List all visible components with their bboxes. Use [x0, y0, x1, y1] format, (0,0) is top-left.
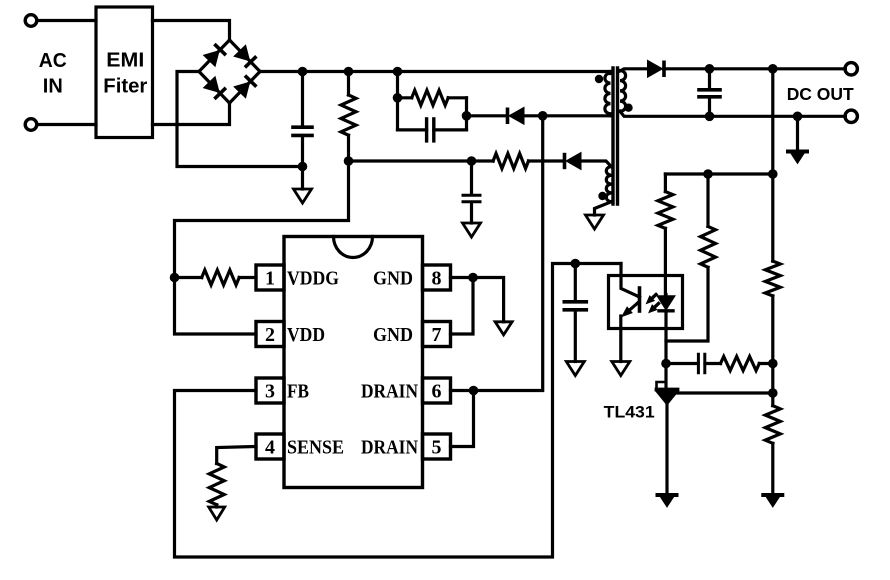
node rail-R1	[344, 67, 354, 77]
wire divider top	[771, 69, 774, 174]
node C1-lower bus	[298, 162, 308, 172]
resistor R1 startup	[341, 95, 356, 135]
wire TL431 ref	[676, 391, 773, 394]
wire comp mid lead	[705, 362, 721, 365]
node C2-DC- rail	[705, 112, 715, 122]
pin 4 box	[256, 434, 284, 459]
resistor R6 opto series	[658, 192, 673, 229]
wire FB route	[175, 264, 622, 558]
svg-text:4: 4	[265, 437, 275, 459]
wire secondary top lead	[620, 69, 648, 71]
wire divider to R8	[771, 174, 774, 261]
wire primary bottom joint	[609, 114, 612, 116]
node snubber output	[462, 111, 472, 121]
wire R7 top lead	[706, 174, 709, 226]
svg-text:3: 3	[265, 381, 275, 403]
resistor R2 to VDDG	[202, 270, 240, 285]
opto light arrow 1	[652, 295, 656, 299]
bridge diode D3 bottom-left	[204, 77, 220, 93]
bridge diamond edge top-right	[230, 40, 261, 72]
wire node A horizontal	[665, 172, 772, 175]
wire comp right lead	[759, 362, 773, 365]
node ref	[768, 388, 778, 398]
resistor R10 compensation	[721, 357, 760, 371]
wire opto collector	[621, 264, 640, 298]
pin 6 box	[423, 378, 451, 403]
wire DC- ground stub	[796, 116, 799, 151]
bridge diamond edge bottom-left	[199, 72, 230, 104]
terminal DC-	[845, 110, 857, 122]
wire snubber to clamp diode	[467, 114, 508, 117]
wire snubber bottom-right	[434, 128, 467, 131]
wire snubber feed	[396, 72, 399, 98]
wire EMI top output to bridge AC top	[153, 21, 230, 41]
node DC+ divider tap	[768, 64, 778, 74]
node VDD cap	[467, 156, 477, 166]
svg-text:5: 5	[432, 437, 442, 459]
svg-text:DRAIN: DRAIN	[361, 381, 418, 403]
ground TL431	[658, 493, 677, 497]
svg-text:IN: IN	[43, 76, 63, 98]
phase dot primary	[595, 75, 603, 83]
wire opto LED cathode down	[664, 311, 667, 364]
svg-text:DC OUT: DC OUT	[787, 84, 854, 104]
EMI filter block	[96, 7, 153, 138]
node pin8 gnd	[468, 273, 478, 283]
transformer auxiliary winding	[606, 167, 611, 202]
node drain pin6	[469, 386, 479, 396]
TL431 ref tab	[657, 382, 664, 389]
wire C1 bottom	[301, 136, 304, 167]
phase dot secondary	[624, 104, 632, 112]
TL431 U3 body	[657, 392, 678, 405]
wire snubber bottom-left	[398, 128, 427, 131]
resistor R5 sense	[209, 464, 224, 505]
terminal AC input top	[25, 15, 37, 27]
capacitor C1 bulk	[293, 125, 312, 129]
svg-text:GND: GND	[373, 324, 413, 346]
wire R3 left lead	[398, 96, 412, 99]
ground aux winding	[586, 215, 604, 229]
bridge diamond edge bottom-right	[230, 72, 261, 104]
wire R9 top	[771, 393, 774, 406]
wire secondary bottom lead	[620, 111, 845, 116]
node DC- ground tap	[793, 112, 803, 122]
wire R6 bottom lead	[664, 228, 667, 294]
wire C2 bottom	[708, 98, 711, 117]
node comp right	[768, 359, 778, 369]
bridge diode D2 top-right	[234, 45, 250, 61]
wire TL431 cathode	[664, 364, 667, 388]
wire drain vertical	[474, 116, 543, 391]
wire C2 top	[708, 69, 711, 89]
wire pin5 lead	[451, 391, 474, 447]
node rail-C1	[298, 67, 308, 77]
ground VDD cap	[463, 223, 481, 237]
wire C5 bottom	[574, 311, 577, 362]
wire primary top joint	[609, 72, 612, 74]
bridge diode D4 bottom-right	[234, 82, 250, 98]
transformer primary winding	[605, 73, 611, 114]
wire R2 right lead to pin 1	[239, 276, 256, 279]
svg-text:EMI: EMI	[106, 50, 144, 72]
ground DC output	[788, 150, 807, 154]
wire snubber right side	[465, 98, 468, 130]
ground IC pins 8-7	[495, 322, 512, 335]
resistor R3 snubber	[412, 90, 449, 105]
capacitor C4 VDD	[463, 194, 480, 197]
wire comp left lead	[666, 362, 698, 365]
terminal DC+	[845, 63, 857, 75]
wire aux top lead	[581, 161, 612, 167]
diode D6 aux rectifier	[566, 153, 581, 170]
ground divider	[763, 493, 782, 497]
pin 2 box	[256, 322, 284, 347]
pin 7 box	[423, 322, 451, 347]
wire AC top to EMI filter	[37, 19, 96, 22]
wire bridge negative to lower bus	[177, 72, 303, 167]
svg-text:8: 8	[432, 268, 442, 290]
svg-text:7: 7	[432, 324, 442, 346]
IC U1 notch	[334, 237, 373, 258]
wire C4 bottom	[470, 203, 473, 223]
wire R8 bottom	[771, 296, 774, 364]
wire TL431 anode	[665, 405, 668, 496]
diode D7 output	[648, 60, 663, 77]
wire C1 top	[301, 72, 304, 128]
svg-text:AC: AC	[39, 50, 67, 72]
wire primary bottom lead	[543, 114, 612, 117]
node primary-drain	[538, 111, 548, 121]
wire R7 bottom lead	[666, 267, 708, 341]
wire divider mid	[771, 364, 774, 394]
wire IC ground stub	[473, 278, 504, 322]
node R1-VDD bus	[344, 156, 354, 166]
wire R3 right lead	[448, 96, 466, 99]
svg-text:Fiter: Fiter	[103, 76, 147, 98]
pin 1 box	[256, 265, 284, 290]
node DC+ out cap	[705, 64, 715, 74]
bridge diamond edge top-left	[199, 40, 230, 72]
IC U1 body	[284, 237, 423, 488]
svg-text:TL431: TL431	[604, 404, 655, 422]
svg-text:6: 6	[432, 381, 442, 403]
capacitor C3 snubber	[425, 119, 428, 141]
optocoupler U2 box	[609, 276, 683, 329]
transformer core bar left	[611, 68, 614, 204]
ground primary (bulk)	[294, 189, 312, 203]
opto transistor emitter	[630, 302, 639, 310]
wire EMI bottom output to bridge AC bottom	[153, 103, 230, 125]
pin 5 box	[423, 434, 451, 459]
wire VDD feed down	[175, 161, 349, 334]
wire pin6 lead	[451, 389, 474, 392]
phase dot aux	[598, 192, 606, 200]
svg-text:1: 1	[265, 268, 275, 290]
wire snubber left side	[396, 98, 399, 130]
transformer core bar right	[616, 68, 619, 204]
node A mid	[703, 169, 713, 179]
svg-text:GND: GND	[373, 268, 413, 290]
capacitor C6 compensation	[697, 354, 700, 373]
svg-text:FB: FB	[287, 381, 309, 403]
wire clamp diode to primary	[525, 114, 543, 117]
capacitor C5 FB	[564, 300, 586, 304]
opto LED anode lead	[664, 295, 667, 297]
opto LED D8	[658, 296, 675, 310]
wire R4 to diode D6	[529, 159, 565, 162]
node FB cap	[571, 259, 581, 269]
resistor R9 divider bottom	[765, 406, 780, 444]
opto light arrow 2	[654, 304, 658, 308]
pin 8 box	[423, 265, 451, 290]
resistor R4 aux	[493, 154, 528, 169]
opto transistor base bar	[638, 288, 642, 311]
wire HV rail	[260, 70, 612, 73]
node comp left	[661, 359, 671, 369]
wire R6 top lead	[664, 174, 667, 192]
wire opto emitter down	[619, 316, 622, 362]
svg-text:2: 2	[265, 324, 275, 346]
wire R9 bottom	[771, 443, 774, 495]
node rail-snubber	[393, 67, 403, 77]
wire SENSE pin lead	[217, 447, 256, 464]
svg-text:SENSE: SENSE	[287, 437, 344, 459]
resistor R7 parallel	[701, 226, 716, 267]
wire DC+ rail	[664, 67, 846, 70]
wire AC bottom to EMI filter	[37, 123, 96, 126]
svg-text:VDD: VDD	[287, 324, 325, 346]
svg-text:VDDG: VDDG	[287, 268, 339, 290]
ground sense resistor	[209, 507, 225, 520]
terminal AC input bottom	[25, 119, 37, 131]
wire aux bottom lead	[595, 202, 612, 215]
resistor R8 divider top	[765, 261, 780, 296]
bridge diode D1 top-left	[204, 51, 220, 67]
diode D5 clamp	[509, 107, 524, 124]
wire VDD bus	[349, 159, 494, 162]
ground opto emitter	[612, 362, 630, 376]
ground FB cap	[566, 362, 584, 376]
wire pin7 tie	[451, 278, 474, 335]
wire R2 left lead	[175, 276, 202, 279]
node snubber corner	[393, 93, 403, 103]
transformer secondary winding	[620, 71, 626, 112]
node A right	[768, 169, 778, 179]
wire pin8 lead	[451, 276, 474, 279]
wire R1 bottom	[347, 135, 350, 161]
wire C4 top	[470, 161, 473, 194]
wire R5 bottom	[215, 505, 218, 507]
TL431 U3 cathode bar	[657, 388, 678, 392]
node VDDG resistor junction	[170, 273, 180, 283]
wire C5 top	[574, 264, 577, 302]
wire to primary ground	[301, 167, 304, 190]
capacitor C2 output	[699, 88, 720, 92]
svg-text:DRAIN: DRAIN	[361, 437, 418, 459]
wire R1 top	[347, 72, 350, 96]
pin 3 box	[256, 378, 284, 403]
